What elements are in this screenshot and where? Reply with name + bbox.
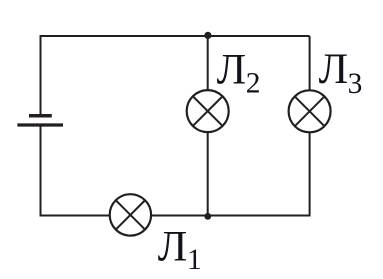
wire left upper (battery top lead) [40, 35, 42, 114]
junction node bottom [204, 213, 211, 220]
svg-text:3: 3 [348, 68, 363, 100]
battery GB short plate [29, 114, 52, 118]
label L3 [319, 45, 363, 100]
wire bottom left [40, 215, 111, 217]
wire left lower (battery bottom lead) [40, 127, 42, 217]
wire top [41, 35, 310, 37]
label L1 [158, 223, 202, 276]
svg-text:Л: Л [158, 223, 188, 271]
svg-text:Л: Л [217, 45, 247, 93]
lamp L1 [110, 194, 151, 235]
wire bottom right [151, 215, 311, 217]
svg-text:Л: Л [319, 45, 349, 93]
wire middle branch upper [207, 36, 209, 90]
lamp L3 [289, 90, 331, 132]
lamp L2 [187, 90, 229, 132]
junction node top [204, 32, 211, 39]
battery GB long plate [17, 123, 63, 126]
svg-text:1: 1 [187, 244, 202, 276]
wire middle branch lower [207, 132, 209, 215]
wire right branch lower [309, 132, 311, 215]
label L2 [217, 45, 261, 99]
wire right branch upper [309, 36, 311, 90]
svg-text:2: 2 [246, 67, 261, 99]
